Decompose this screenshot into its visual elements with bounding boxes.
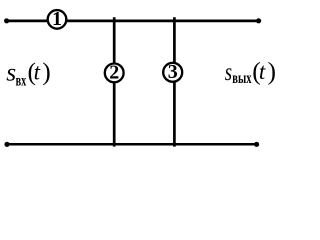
- svg-text:1: 1: [52, 8, 62, 30]
- node: input bottom terminal: [4, 142, 9, 147]
- wire: top horizontal rail: [7, 19, 259, 22]
- svg-text:3: 3: [168, 61, 178, 83]
- element 2: shunt block circle: [105, 64, 124, 83]
- svg-text:вых: вых: [232, 70, 251, 87]
- node: output top terminal: [256, 18, 261, 23]
- node: output bottom terminal: [254, 142, 259, 147]
- wire: bottom horizontal rail: [7, 143, 257, 146]
- svg-text:вх: вх: [16, 72, 27, 89]
- node: input top terminal: [4, 18, 9, 23]
- svg-text:2: 2: [109, 61, 119, 83]
- element 1: series block circle: [48, 10, 67, 29]
- label: input signal s_vx(t): [6, 57, 51, 89]
- element 3: shunt block circle: [163, 63, 182, 82]
- label: output signal s_vyx(t): [225, 57, 276, 88]
- svg-text:t: t: [34, 60, 41, 85]
- svg-text:): ): [268, 57, 277, 86]
- svg-text:t: t: [259, 59, 266, 84]
- svg-text:s: s: [225, 59, 232, 86]
- wire: shunt branch 2 vertical: [113, 17, 116, 146]
- wire: shunt branch 3 vertical: [173, 17, 176, 146]
- svg-text:): ): [42, 57, 51, 86]
